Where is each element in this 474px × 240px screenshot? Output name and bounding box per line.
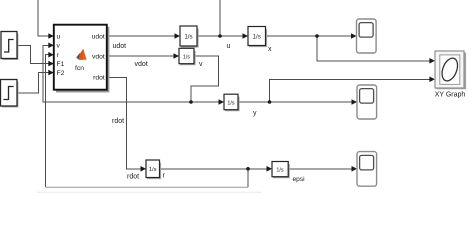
svg-text:rdot: rdot (93, 74, 105, 81)
svg-text:vdot: vdot (135, 61, 148, 68)
svg-text:1/s: 1/s (184, 33, 192, 40)
svg-text:x: x (268, 46, 272, 53)
svg-text:u: u (57, 33, 61, 40)
svg-text:epsi: epsi (293, 176, 306, 183)
svg-text:vdot: vdot (92, 53, 105, 60)
svg-text:y: y (253, 110, 257, 117)
svg-text:XY Graph: XY Graph (435, 91, 466, 98)
svg-text:udot: udot (92, 33, 105, 40)
svg-text:v: v (57, 43, 61, 50)
svg-text:1/s: 1/s (276, 168, 283, 174)
svg-text:F2: F2 (57, 70, 65, 77)
svg-text:rdot: rdot (127, 174, 139, 181)
svg-text:udot: udot (113, 43, 127, 50)
svg-text:1/s: 1/s (253, 33, 261, 40)
svg-text:F1: F1 (57, 61, 65, 68)
svg-text:rdot: rdot (112, 118, 124, 125)
svg-text:1/s: 1/s (227, 101, 234, 107)
svg-text:1/s: 1/s (183, 54, 190, 60)
svg-text:1/s: 1/s (149, 167, 157, 173)
svg-text:fcn: fcn (75, 65, 84, 72)
svg-text:u: u (227, 43, 231, 50)
svg-text:v: v (199, 61, 203, 68)
